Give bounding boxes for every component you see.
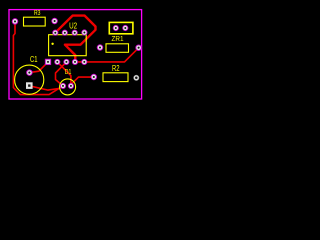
pad U2.4 bbox=[72, 59, 77, 64]
diode box component body below ZR1 bbox=[106, 44, 129, 53]
svg-text:D1: D1 bbox=[65, 68, 72, 76]
wire T2: thick trace from U2 pin1 over top, chevron right of U2, zigzag back to U2 pin4 bbox=[55, 16, 95, 62]
pad C1.negative square bbox=[26, 82, 33, 89]
pad of lower box left bbox=[97, 45, 103, 51]
op-amp U2 silkscreen body bbox=[49, 20, 87, 55]
pad R3.1 bbox=[12, 19, 18, 25]
svg-text:U2: U2 bbox=[69, 20, 77, 30]
wire T6: C1 square pad to D1 pad1 bbox=[31, 86, 63, 90]
wire T4: U2 bottom pin3 to D1 pad1 bbox=[56, 62, 67, 86]
via at U2 bottom row right bbox=[82, 59, 87, 64]
svg-text:C1: C1 bbox=[30, 56, 38, 64]
pad ZR1.2 bbox=[123, 25, 128, 30]
pad U2.1 square pin1 bbox=[45, 59, 50, 64]
pad D1.2 bbox=[68, 83, 73, 88]
wire T3: U2 bottom pin2 to D1 pad2 bbox=[57, 62, 71, 86]
pad U2.5 bbox=[82, 30, 87, 35]
wire T1: R3 pad1 to D1 pad1 via left edge and bottom bbox=[13, 21, 63, 94]
board outline bbox=[9, 10, 142, 99]
resistor R2 bbox=[103, 65, 128, 81]
pad ZR1.1 bbox=[113, 25, 118, 30]
resistor ZR1 bbox=[109, 22, 133, 43]
svg-text:R3: R3 bbox=[34, 9, 41, 17]
capacitor C1 silkscreen circle bbox=[15, 56, 44, 94]
svg-text:ZR1: ZR1 bbox=[112, 35, 124, 43]
resistor R3 bbox=[24, 9, 46, 26]
pad U2.2 bbox=[55, 59, 60, 64]
pad C1.positive round bbox=[27, 70, 33, 76]
svg-text:R2: R2 bbox=[112, 65, 120, 73]
pad U2.8 bbox=[53, 30, 58, 35]
pad R2.2 bbox=[134, 75, 139, 80]
wire T7: U2 bottom row via to diode box right pad bbox=[75, 48, 138, 62]
diode D1 silkscreen circle bbox=[60, 68, 76, 95]
pad R3.2 bbox=[52, 18, 58, 24]
pad U2.3 bbox=[64, 59, 69, 64]
wire T8: R2 pad1 left to D1 pad2 bbox=[71, 77, 94, 86]
wire T5: U2 bottom pin1 to C1 positive pad bbox=[29, 62, 48, 73]
pad U2.7 bbox=[62, 30, 67, 35]
pad D1.1 bbox=[60, 83, 65, 88]
pad U2.6 bbox=[72, 30, 77, 35]
pad of lower box right bbox=[136, 45, 142, 51]
pad R2.1 bbox=[91, 74, 97, 80]
